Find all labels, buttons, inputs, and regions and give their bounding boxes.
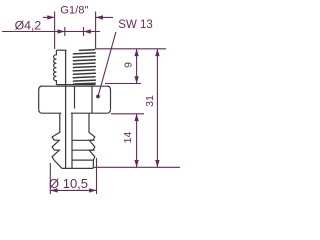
arrowheads d4.2 [58, 29, 65, 33]
ext 14 top [111, 113, 144, 115]
svg-text:31: 31 [144, 95, 156, 107]
hex body SW13 [43, 85, 107, 87]
svg-text:SW 13: SW 13 [118, 19, 153, 31]
ext bottom [94, 166, 180, 168]
centerline [74, 86, 76, 109]
ext 9 bottom [105, 83, 141, 85]
dim d10.5 [49, 163, 51, 194]
bore line left (Ø4.2) [65, 50, 67, 168]
arrowheads G1/8 [47, 15, 54, 19]
purple dimensions [2, 12, 180, 195]
barb inner vertical [71, 113, 73, 168]
leader dot [96, 95, 100, 99]
svg-text:Ø 10,5: Ø 10,5 [49, 176, 88, 191]
arrowheads 14 [134, 114, 138, 121]
svg-text:14: 14 [122, 132, 134, 144]
thread coils (G1/8 male thread, right half hatch) [73, 50, 95, 84]
barb nozzle right profile [89, 113, 95, 168]
thread crest wavy line (left) [54, 50, 57, 84]
nozzle bottom edge [62, 167, 93, 169]
svg-text:Ø4,2: Ø4,2 [15, 19, 42, 33]
svg-text:G1/8": G1/8" [60, 4, 88, 16]
dim line 31 [156, 49, 158, 168]
thread bottom edge [56, 84, 95, 86]
hex corner arcs [39, 86, 43, 90]
arrowheads d10.5 [50, 188, 57, 192]
barb nozzle left profile [52, 113, 62, 168]
leader SW13 [98, 32, 116, 97]
arrowheads 9 [134, 49, 138, 56]
ext top [96, 48, 166, 50]
hex facet line right [91, 86, 93, 113]
dim line d4.2 [2, 31, 100, 33]
svg-text:9: 9 [122, 62, 134, 68]
barb ring bottom edges [72, 139, 95, 141]
dim G1/8 [43, 16, 55, 18]
thread top edge [56, 49, 66, 51]
dim line 9 / 14 [136, 49, 138, 84]
arrowheads 31 [155, 49, 159, 56]
